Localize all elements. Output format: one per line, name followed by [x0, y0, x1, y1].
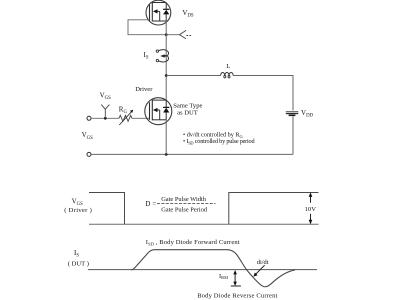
svg-text:• ISD controlled by pulse peri: • ISD controlled by pulse period [183, 138, 255, 145]
mosfet Q1 body arrow [153, 9, 158, 13]
wire inductor to right rail [233, 75, 293, 77]
wire RG to Q2 gate [132, 117, 150, 119]
IS waveform curve [131, 250, 295, 287]
wire: main vertical rail (Q1 source to Q2 drain) [165, 21, 167, 100]
svg-text:10V: 10V [305, 206, 317, 213]
wire: bottom rail [91, 153, 293, 155]
inductor L [221, 73, 234, 76]
svg-text:( Driver ): ( Driver ) [64, 207, 92, 214]
current sensor IS terminals [156, 50, 158, 52]
svg-text:Driver: Driver [135, 86, 153, 93]
svg-text:di/dt: di/dt [257, 259, 269, 266]
mosfet Q2 (driver) circle [145, 98, 172, 125]
mosfet Q1 (top, gate-source shorted) circle [146, 0, 171, 25]
mosfet Q1 gate bar [149, 5, 151, 22]
terminal: bottom-left open circle [87, 152, 91, 156]
mosfet Q1 channel [151, 3, 153, 22]
wire: input to RG [91, 117, 119, 119]
node: VGS probe junction dot [104, 117, 107, 120]
node: inductor branch junction dot [165, 74, 168, 77]
wire: probe stub [166, 34, 179, 36]
mosfet Q2 source connect [152, 119, 166, 121]
VGS pulse 2 top [229, 193, 319, 225]
IRM bottom tick [231, 285, 241, 287]
mosfet Q2 body arrow [153, 108, 158, 112]
wire to inductor [166, 75, 220, 77]
current sensor IS coil arcs [159, 50, 169, 57]
resistor RG [119, 115, 132, 121]
mosfet Q2 body diode [163, 106, 169, 108]
node: source junction dot on bottom rail [165, 153, 168, 156]
mosfet Q1 body diode [163, 8, 169, 10]
current sensor IS arrow [160, 54, 164, 57]
mosfet Q1 drain connect [152, 2, 166, 4]
mosfet Q2 gate bar [149, 102, 151, 120]
svg-text:Gate Pulse Width: Gate Pulse Width [161, 196, 207, 203]
IS axis [88, 269, 317, 271]
wire: Q2 source to bottom rail [165, 120, 167, 155]
svg-text:L: L [226, 63, 230, 70]
VGS probe [104, 109, 106, 118]
svg-text:Body Diode Reverse Current: Body Diode Reverse Current [197, 292, 277, 299]
mosfet Q2 drain connect [152, 99, 166, 101]
wire: Q1 gate-source short [128, 20, 166, 35]
10V dimension arrows [310, 194, 312, 203]
terminal: gate-drive input open circle [87, 116, 91, 120]
VGS pulse 1 top [89, 193, 125, 225]
svg-text:( DUT ): ( DUT ) [68, 261, 89, 268]
svg-text:Gate Pulse Period: Gate Pulse Period [161, 207, 208, 214]
wire: right rail upper [292, 75, 294, 110]
svg-text:Same Type: Same Type [173, 102, 202, 109]
mosfet Q2 channel [151, 100, 153, 120]
mosfet Q1 source connect [152, 20, 166, 22]
probe dashes [186, 35, 191, 37]
node: Q1 source junction dot [165, 33, 168, 36]
IRM dimension arrow [234, 272, 236, 284]
wire: right rail lower [292, 116, 294, 154]
probe arrowhead [180, 30, 187, 38]
VGS axis (low level) [89, 223, 319, 225]
battery VDD [286, 111, 299, 113]
svg-text:ISD , Body Diode Forward Curre: ISD , Body Diode Forward Current [146, 239, 240, 246]
resistor RG variable arrow [119, 112, 131, 125]
svg-text:as DUT: as DUT [177, 109, 198, 116]
svg-text:D =: D = [145, 200, 156, 208]
